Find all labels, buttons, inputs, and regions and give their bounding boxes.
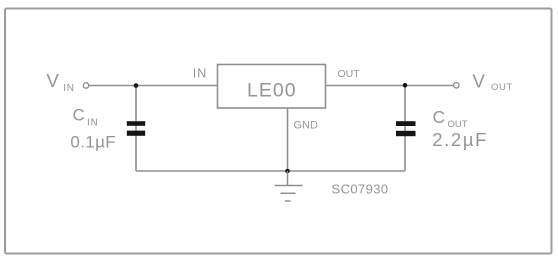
svg-text:C: C [73, 106, 85, 125]
regulator U1 LE00 [218, 65, 326, 109]
svg-text:LE00: LE00 [247, 80, 297, 102]
svg-text:OUT: OUT [491, 82, 513, 93]
svg-text:V: V [47, 70, 60, 91]
svg-text:IN: IN [193, 67, 208, 81]
svg-text:2.2µF: 2.2µF [432, 129, 488, 150]
svg-text:OUT: OUT [338, 68, 361, 80]
wire: left branch vertical (Cin) [135, 86, 137, 172]
svg-text:IN: IN [87, 118, 99, 129]
wire: right branch vertical (Cout) [404, 86, 406, 172]
svg-text:GND: GND [294, 119, 319, 131]
node Vin terminal [83, 83, 88, 88]
svg-text:C: C [433, 107, 446, 127]
wire: Vin terminal to IN pin of regulator [89, 85, 218, 87]
wire: bottom ground rail [136, 170, 405, 172]
ground [275, 171, 303, 201]
node junction dot right [403, 83, 408, 88]
node junction dot left [134, 83, 139, 88]
node Vout terminal [454, 83, 459, 88]
svg-text:V: V [473, 70, 486, 91]
capacitor C_OUT plates [396, 121, 416, 126]
wire: OUT pin to Vout terminal [326, 85, 454, 87]
svg-text:IN: IN [63, 83, 75, 94]
wire: GND pin from regulator to rail [287, 108, 289, 171]
svg-text:SC07930: SC07930 [332, 182, 389, 197]
capacitor C_IN plates [127, 121, 145, 126]
svg-text:0.1µF: 0.1µF [70, 133, 116, 152]
node junction dot ground [285, 169, 290, 174]
